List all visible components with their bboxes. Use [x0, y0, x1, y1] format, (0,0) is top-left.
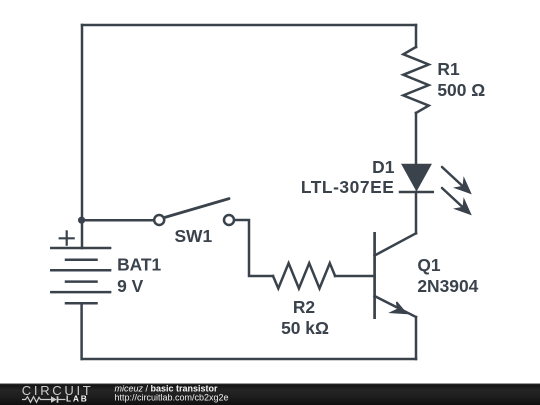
LED D1 light arrow upper [442, 167, 470, 193]
wire battery bottom to bottom rail [80, 303, 83, 359]
svg-text:9 V: 9 V [117, 276, 144, 296]
switch SW1 terminal circle right [224, 215, 234, 225]
resistor R2 [273, 263, 335, 288]
node A junction dot [78, 217, 85, 224]
wire top rail [82, 24, 416, 27]
wire right rail top to R1 [415, 25, 418, 47]
svg-text:R2: R2 [293, 297, 315, 317]
svg-text:50 kΩ: 50 kΩ [281, 318, 329, 338]
svg-text:http://circuitlab.com/cb2xg2e: http://circuitlab.com/cb2xg2e [115, 392, 229, 402]
transistor Q1 base bar [373, 233, 376, 317]
svg-text:2N3904: 2N3904 [417, 276, 478, 296]
resistor R1 [403, 47, 428, 113]
wire R1 to LED [415, 113, 418, 165]
svg-text:D1: D1 [372, 157, 395, 177]
transistor Q1 collector [375, 233, 416, 255]
battery BAT1 plates [51, 248, 110, 303]
svg-text:Q1: Q1 [417, 255, 441, 275]
svg-text:500 Ω: 500 Ω [437, 80, 485, 100]
switch SW1 terminal circle left [154, 215, 164, 225]
wire bottom rail [82, 358, 416, 361]
LED D1 triangle [402, 164, 431, 190]
wire switch to R2 (down-elbow) [235, 220, 273, 276]
battery plus sign [60, 231, 74, 244]
svg-text:LTL-307EE: LTL-307EE [301, 177, 395, 197]
LED D1 light arrow lower [442, 188, 470, 214]
switch SW1 lever [164, 199, 229, 218]
transistor Q1 emitter arrowhead [391, 302, 406, 313]
LED D1 cathode bar [400, 191, 433, 194]
wire LED to collector corner [415, 192, 418, 233]
logo resistor squiggle [22, 397, 51, 403]
wire left rail (top to battery) [81, 25, 84, 248]
svg-text:BAT1: BAT1 [117, 255, 161, 275]
svg-text:LAB: LAB [66, 393, 89, 403]
wire junction to switch [82, 219, 153, 222]
logo diode [51, 396, 57, 403]
wire R2 to base [335, 275, 374, 278]
wire emitter corner to bottom rail [415, 317, 418, 359]
transistor Q1 emitter [375, 296, 417, 317]
svg-text:SW1: SW1 [174, 226, 212, 246]
svg-text:R1: R1 [437, 59, 460, 79]
